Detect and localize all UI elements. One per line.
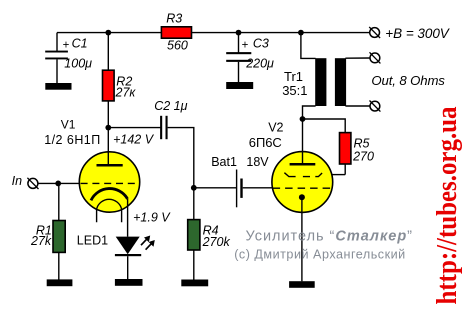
wire anode junction to R5 — [303, 119, 346, 133]
V2 cathode node — [299, 194, 305, 200]
capacitor C3 — [226, 33, 274, 83]
svg-text:R5: R5 — [354, 137, 370, 151]
svg-text:In: In — [12, 174, 22, 188]
svg-text:18V: 18V — [246, 155, 269, 169]
node V2 anode junction — [300, 116, 306, 122]
svg-text:270k: 270k — [202, 235, 231, 249]
wire rail to Tr1 primary top — [301, 33, 316, 59]
wire secondary top to Out — [345, 57, 370, 59]
V1 cathode arc — [91, 189, 128, 201]
terminal +B — [369, 26, 451, 41]
svg-text:270: 270 — [352, 149, 374, 163]
resistor R1 — [30, 183, 65, 279]
op V2 tube envelope — [272, 152, 333, 213]
ground under C3 — [226, 82, 253, 89]
wire anode junction to V2 anode — [302, 119, 304, 165]
svg-text:+: + — [63, 39, 70, 51]
capacitor C2 — [154, 99, 187, 139]
wire V1 cathode to LED — [127, 199, 129, 237]
resistor R2 — [103, 33, 137, 128]
V2 anode plate — [290, 163, 316, 166]
svg-text:V2: V2 — [268, 120, 283, 134]
resistor R3 — [161, 11, 191, 52]
V2 control grid (dashed) — [273, 187, 333, 189]
LED LED1 — [77, 234, 141, 280]
op V1 tube envelope — [79, 152, 139, 212]
wire grid node to Bat1 — [194, 187, 236, 189]
svg-text:+: + — [242, 39, 249, 51]
node +142V junction — [105, 125, 111, 131]
resistor R5 — [332, 133, 375, 175]
LED light arrows — [141, 236, 155, 250]
svg-text:LED1: LED1 — [77, 234, 108, 248]
ground under R1 — [47, 279, 73, 286]
node junction C3 — [236, 30, 242, 36]
V1 anode plate — [97, 164, 123, 167]
svg-text:1/2 6Н1П: 1/2 6Н1П — [44, 133, 100, 147]
svg-text:27к: 27к — [115, 85, 137, 99]
svg-text:+1.9 V: +1.9 V — [133, 211, 171, 225]
wire Bat1 to V2 grid — [243, 187, 273, 189]
battery Bat1 — [211, 155, 269, 207]
wire top rail left segment — [57, 32, 161, 34]
resistor R4 — [188, 188, 231, 280]
V1 grid (dashed) — [81, 182, 139, 184]
svg-text:560: 560 — [167, 39, 188, 53]
svg-text:6П6С: 6П6С — [249, 135, 282, 150]
ground under C1 — [45, 83, 71, 90]
V2 screen grid — [284, 173, 322, 177]
svg-text:C3: C3 — [253, 37, 269, 51]
svg-text:C1: C1 — [72, 37, 88, 51]
svg-text:C2 1μ: C2 1μ — [154, 99, 187, 113]
svg-text:Усилитель “Сталкер”: Усилитель “Сталкер” — [246, 229, 413, 245]
svg-text:Tr1: Tr1 — [284, 69, 303, 84]
svg-text:R3: R3 — [166, 11, 182, 25]
svg-text:100μ: 100μ — [64, 56, 92, 70]
wire V2 cathode to ground — [301, 197, 303, 281]
svg-text:V1: V1 — [61, 118, 76, 132]
wire +142V to C2 — [108, 127, 161, 129]
V2 anode lead inside — [302, 152, 304, 165]
svg-text:http://tubes.org.ua: http://tubes.org.ua — [432, 107, 463, 305]
wire Tr1 primary bottom — [303, 106, 316, 119]
capacitor C1 — [45, 33, 92, 84]
node junction C1/R2 — [105, 30, 111, 36]
ground under LED1 — [115, 279, 143, 286]
svg-text:220μ: 220μ — [245, 56, 274, 70]
wire V1 anode lead — [107, 128, 109, 165]
svg-text:Bat1: Bat1 — [211, 155, 237, 169]
wire In to V1 grid — [38, 182, 81, 184]
ground under R4 — [181, 280, 208, 287]
terminal Out upper — [370, 52, 381, 63]
transformer Tr1 secondary — [335, 58, 346, 106]
svg-text:35:1: 35:1 — [282, 83, 307, 98]
wire C2 to grid node — [168, 128, 194, 188]
svg-text:+B = 300V: +B = 300V — [385, 26, 450, 41]
svg-text:Out, 8 Ohms: Out, 8 Ohms — [371, 73, 445, 88]
node In/R1 junction — [55, 181, 61, 187]
svg-text:27k: 27k — [30, 234, 52, 248]
ground under V2 — [289, 281, 315, 288]
V1 heater — [97, 199, 122, 222]
terminal In — [12, 174, 39, 189]
wire secondary bottom to Out — [345, 105, 370, 107]
svg-text:(с) Дмитрий Архангельский: (с) Дмитрий Архангельский — [234, 247, 405, 261]
node V2 grid junction — [191, 185, 197, 191]
wire top rail right segment — [192, 32, 370, 34]
node junction Tr1 primary — [298, 30, 304, 36]
terminal Out lower — [370, 101, 381, 112]
transformer Tr1 primary — [315, 58, 326, 106]
svg-text:+142 V: +142 V — [113, 133, 155, 147]
